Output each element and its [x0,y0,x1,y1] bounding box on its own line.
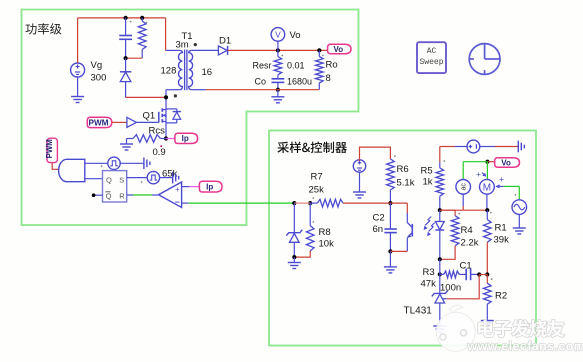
svg-text:10k: 10k [319,239,335,250]
svg-text:www.elecfans.com: www.elecfans.com [467,340,583,354]
node Q1 source [164,136,168,140]
svg-text:ac: ac [461,183,468,191]
svg-text:V: V [275,30,281,40]
capacitor C1 [459,273,466,275]
wire latch S [127,177,148,179]
resistor R3 [440,273,444,275]
label 采样&控制器 [277,142,347,153]
svg-text:R7: R7 [311,172,323,183]
resistor R8 [309,203,311,226]
pin marker R5 [443,160,445,162]
wire clamp bottom [126,96,166,98]
resistor R4 [440,210,455,216]
LED D3 [439,210,441,221]
ground R2 [481,320,494,322]
ground sine [518,214,520,228]
wire top rail [78,17,166,19]
wire AND in1 [85,162,108,164]
ground sawtooth A [120,162,144,164]
node M bottom [485,208,489,212]
wire AND in2 to Q [85,178,103,180]
stub Qbar [94,194,103,196]
capacitor C2 [389,203,391,229]
source Vg [71,63,85,77]
node fb2 [308,201,312,205]
wire opto collector [390,202,407,204]
svg-text:Vo: Vo [333,45,343,54]
resistor R5 [439,162,441,168]
wire buffer to gate [136,121,158,123]
ground bias B [517,141,519,153]
node LED bottom [438,257,442,261]
wire PWM flag to AND [52,163,59,170]
svg-text:128: 128 [161,66,177,77]
wire fb red1 [294,202,310,204]
T1 polarity dot primary [174,94,177,97]
wire fb red2 [343,202,390,204]
pin marker Ro [322,55,324,57]
pin marker Rcs [160,145,162,147]
wire snubber bottom [126,57,143,59]
buffer U2 [127,117,136,127]
svg-text:1k: 1k [423,177,433,188]
node snubber cap top [124,16,128,20]
source sawtooth B [147,171,159,183]
svg-text:3m: 3m [176,40,189,51]
pin marker saw A [101,165,103,167]
AC Sweep block [417,42,446,73]
resistor R2 [486,275,488,284]
diode clamp [125,58,127,71]
svg-text:+: + [476,169,481,179]
svg-text:Rcs: Rcs [149,126,166,137]
svg-text:S: S [119,175,124,184]
svg-text:R2: R2 [495,291,507,302]
svg-text:Sweep: Sweep [419,58,443,67]
resistor R6 [387,159,395,190]
svg-text:25k: 25k [309,185,325,196]
flag PWM vertical [47,138,57,162]
AND gate U3 [59,159,85,181]
wire bias B right [480,146,495,148]
node fb3 R6 bottom [388,201,392,205]
resistor Rcs [127,138,134,140]
svg-text:Q: Q [106,175,112,184]
wire LED to R3 node [439,259,441,274]
label 功率级 [25,23,61,34]
svg-text:+: + [499,174,504,184]
optocoupler light arrows [425,217,431,226]
svg-text:AC: AC [427,47,437,56]
ground opto [389,251,391,267]
optocoupler transistor U6 [411,224,413,237]
wire TL431 ref [447,275,480,299]
wire opto emitter [390,250,407,252]
svg-text:0.9: 0.9 [153,147,166,158]
node Vout top2 [317,48,321,52]
transformer T1 secondary [189,50,193,89]
svg-text:300: 300 [91,73,107,84]
transformer T1 core [184,50,186,91]
pin marker R8 [312,221,314,223]
source bias B horizontal [467,140,480,153]
node R2 top [485,272,489,276]
pin marker Resr [281,55,283,57]
svg-text:47k: 47k [421,279,437,290]
svg-text:C2: C2 [373,213,385,224]
wire feedback green [189,202,295,204]
node snubber res top [140,16,144,20]
svg-text:TL431: TL431 [404,306,433,317]
pin marker sine [515,194,517,196]
source bias A [353,160,365,172]
svg-text:5.1k: 5.1k [397,178,415,189]
wire M right green [504,185,520,187]
wire secondary bottom [206,89,319,91]
resistor Ro [318,50,320,56]
svg-text:2.2k: 2.2k [461,238,479,249]
svg-text:R1: R1 [495,223,507,234]
svg-text:R6: R6 [397,164,409,175]
source sine [512,200,527,215]
pin marker snubcap [130,21,132,23]
flag Ip current [175,133,198,143]
ground sawtooth B [160,177,173,179]
transformer T1 primary [166,49,180,51]
svg-text:6n: 6n [373,224,384,235]
svg-text:Vo: Vo [290,30,301,41]
svg-text:100n: 100n [440,283,461,294]
wire Vo green left [463,161,487,163]
resistor Resr [277,50,279,56]
svg-text:−: − [175,197,180,207]
wire latch R to comparator [127,194,133,196]
pin marker R1 [490,212,492,214]
wire R5 row [440,209,463,211]
node Vout top1 [276,48,280,52]
TL431 U7 [439,274,441,293]
ground TL431 [433,325,446,327]
T1 polarity dot secondary [194,43,197,46]
wire R5 top [439,147,441,163]
wire bias A top [360,147,391,161]
comparator U5 [159,182,182,208]
ground below Vg [77,77,79,97]
flag Vo sense [487,161,494,163]
wire Vg top to rail [77,18,79,63]
ground below Co [277,90,279,97]
svg-text:8: 8 [326,73,331,84]
svg-text:0.01: 0.01 [287,60,305,70]
capacitor Co [272,78,285,80]
node C1 right [477,272,481,276]
wire comp minus [182,202,189,204]
node zener gnd [292,255,296,259]
sampling & controller box (采样&控制器 region outline) [269,131,536,346]
pin marker R6 [394,155,396,157]
watermark elecfans [436,305,583,353]
wire M bottom [486,194,488,210]
capacitor snubber [125,18,127,35]
wire PWM to buffer [112,121,127,123]
svg-text:Q1: Q1 [143,111,156,122]
pin marker R4 [458,213,460,215]
svg-text:R8: R8 [319,227,331,238]
ground Rcs [126,139,128,145]
svg-text:M: M [483,183,491,194]
pin marker R7 [312,197,314,199]
svg-text:Resr: Resr [253,60,272,70]
pin marker snubres [146,22,148,24]
svg-text:Q: Q [106,192,112,201]
wire bias B left [455,146,467,148]
node Vo sense [485,160,489,164]
ground zener [293,257,295,262]
node opto emitter [388,249,392,253]
wire Vo green down [486,162,488,180]
resistor snubber [141,18,143,21]
power stage box (功率级 region outline) [22,10,359,226]
body diode Q1 [166,108,177,110]
clock icon [469,44,500,75]
svg-text:R5: R5 [421,166,433,177]
svg-text:Co: Co [255,77,267,87]
wire ac bottom [462,194,464,206]
flag PWM gate [87,117,112,127]
svg-text:R4: R4 [461,225,473,236]
diode D1 [218,46,227,55]
svg-text:D1: D1 [219,36,231,47]
pin marker R2 [491,278,493,280]
svg-text:Vg: Vg [91,60,103,71]
wire C1 to R2 [479,274,487,276]
node R3 row [438,272,442,276]
wire D1 to output node [228,49,328,51]
ground bias A [359,172,361,192]
node clamp [124,56,128,60]
wire comp plus to Ip [182,186,190,188]
svg-text:PWM: PWM [88,118,108,127]
svg-text:1680u: 1680u [287,77,312,87]
svg-text:+: + [175,185,180,194]
transistor Q1 [158,112,160,123]
latch U4 [103,171,127,202]
wire Ip tap [166,138,175,140]
resistor R7 [310,202,317,204]
svg-text:PWM: PWM [45,139,54,158]
svg-text:Ro: Ro [326,60,338,71]
resistor R1 [486,210,488,219]
meter ac [456,180,471,195]
node R5 bottom [438,208,442,212]
meter M [480,179,495,194]
node Q1 drain [164,95,168,99]
svg-text:39k: 39k [494,235,510,246]
node fb1 [292,201,296,205]
zener D2 [293,203,295,232]
pin marker saw B [141,181,143,183]
flag Vo output [328,44,351,54]
source sawtooth A [108,157,120,169]
svg-text:Ip: Ip [206,183,213,192]
svg-text:Ip: Ip [182,134,189,143]
svg-text:Vo: Vo [501,158,511,167]
svg-text:R: R [119,192,125,201]
svg-text:16: 16 [202,67,213,78]
svg-text:R3: R3 [423,267,435,278]
wire rail corner down [165,18,167,51]
flag Ip sense [199,181,222,192]
svg-text:C1: C1 [460,261,472,272]
voltmeter V [271,28,285,42]
node output bottom [276,88,280,92]
